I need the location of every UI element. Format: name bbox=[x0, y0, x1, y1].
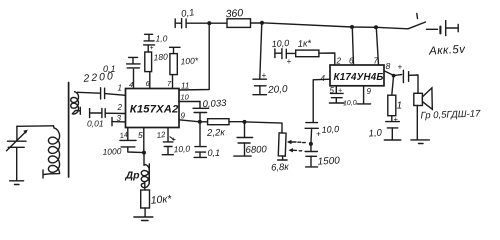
pin 3 stub bbox=[112, 114, 126, 126]
svg-text:4: 4 bbox=[129, 80, 133, 89]
inductor L2 (coupling coil) bbox=[71, 92, 81, 115]
svg-text:1: 1 bbox=[397, 101, 403, 112]
svg-text:0,1: 0,1 bbox=[181, 7, 196, 20]
pin 14 + capacitor 1000 bbox=[102, 128, 144, 157]
wire (supply rail) bbox=[262, 23, 408, 29]
svg-text:0,1: 0,1 bbox=[103, 64, 116, 74]
capacitor output (polarized) bbox=[394, 63, 418, 94]
inductor L1 (tank coil) bbox=[43, 126, 60, 178]
ground (pin 9) bbox=[357, 103, 371, 105]
resistor 10k* bbox=[141, 183, 173, 216]
svg-text:100*: 100* bbox=[180, 55, 199, 66]
svg-text:10,0: 10,0 bbox=[321, 124, 339, 135]
svg-text:1500: 1500 bbox=[317, 155, 340, 167]
svg-text:10: 10 bbox=[181, 93, 190, 102]
resistor 1 bbox=[388, 76, 402, 122]
choke Dr bbox=[125, 153, 150, 188]
capacitor 0,1 (node A) bbox=[195, 122, 220, 158]
pin 5 capacitor 10,0 (U2) bbox=[330, 86, 357, 108]
wire (rail to pin 7) bbox=[376, 27, 378, 65]
capacitor 6800 bbox=[237, 122, 268, 156]
node (rail / 20,0) bbox=[260, 21, 264, 25]
svg-text:2,2к: 2,2к bbox=[206, 127, 226, 139]
svg-text:10,0: 10,0 bbox=[173, 144, 190, 155]
wire (tank top) bbox=[17, 125, 54, 128]
potentiometer 6,8k bbox=[271, 133, 305, 174]
resistor 360 bbox=[209, 7, 262, 27]
svg-text:6,8к: 6,8к bbox=[271, 162, 290, 174]
pin 6 lead bbox=[146, 72, 151, 89]
svg-text:8: 8 bbox=[386, 61, 391, 71]
svg-text:2: 2 bbox=[117, 103, 123, 112]
wire (node B to potentiometer) bbox=[247, 122, 283, 133]
pin 9 lead (U2) bbox=[364, 86, 372, 104]
pin 9 wire (U1) bbox=[179, 112, 200, 122]
capacitor 10,0 (input, polarized) bbox=[271, 38, 295, 66]
svg-text:Др: Др bbox=[125, 170, 141, 182]
ground (20,0) bbox=[253, 94, 266, 96]
amplifier U2 K174UN4B bbox=[330, 65, 384, 86]
svg-text:+: + bbox=[262, 71, 267, 80]
svg-text:Акк.5v: Акк.5v bbox=[428, 44, 467, 58]
svg-text:К174УН4Б: К174УН4Б bbox=[334, 72, 384, 83]
ground (pin 12 cap) bbox=[162, 154, 173, 156]
svg-text:7: 7 bbox=[374, 57, 379, 66]
svg-text:1,0: 1,0 bbox=[368, 127, 383, 139]
svg-text:+: + bbox=[150, 45, 154, 52]
resistor 2,2k bbox=[202, 119, 245, 139]
svg-text:360: 360 bbox=[225, 7, 243, 20]
node B bbox=[243, 120, 247, 124]
svg-text:6: 6 bbox=[349, 57, 354, 66]
svg-text:9: 9 bbox=[367, 87, 372, 96]
capacitor 0,1 (pin 4) bbox=[103, 57, 140, 74]
svg-text:Гр 0,5ГДШ-17: Гр 0,5ГДШ-17 bbox=[420, 108, 481, 121]
pin 5 lead (U1) bbox=[138, 128, 144, 153]
capacitor 1500 bbox=[305, 144, 340, 168]
svg-text:1000: 1000 bbox=[102, 146, 122, 157]
resistor 100* bbox=[170, 47, 199, 74]
capacitor 2200 bbox=[82, 70, 126, 99]
node (pin 7 rail) bbox=[374, 25, 378, 29]
svg-text:6800: 6800 bbox=[245, 144, 267, 156]
svg-text:14: 14 bbox=[119, 130, 129, 140]
node (pin 5) bbox=[142, 151, 146, 155]
svg-text:180: 180 bbox=[153, 51, 168, 62]
svg-text:3: 3 bbox=[117, 114, 122, 123]
svg-text:5: 5 bbox=[138, 130, 143, 140]
node (pin 8) bbox=[392, 74, 396, 78]
svg-text:12: 12 bbox=[156, 130, 167, 140]
ferrite rod bbox=[68, 83, 70, 178]
variable capacitor tank C bbox=[7, 126, 28, 180]
svg-text:7: 7 bbox=[167, 79, 172, 88]
speaker Gr 0,5GDSh-17 bbox=[414, 88, 481, 139]
svg-text:+: + bbox=[398, 63, 403, 72]
resistor 180 bbox=[145, 45, 169, 72]
svg-text:1к*: 1к* bbox=[297, 38, 312, 50]
resistor 1k* bbox=[296, 38, 335, 65]
svg-text:10к*: 10к* bbox=[150, 193, 173, 207]
svg-text:10,0: 10,0 bbox=[271, 38, 289, 49]
ground (6800) bbox=[234, 155, 251, 157]
capacitor 10,0 (node C, polarized) bbox=[305, 123, 339, 144]
pin 10 wire + capacitor 0,033 bbox=[179, 93, 227, 122]
svg-text:9: 9 bbox=[181, 112, 186, 121]
svg-text:1: 1 bbox=[118, 84, 122, 93]
svg-text:+: + bbox=[316, 130, 321, 139]
svg-text:0,01: 0,01 bbox=[87, 119, 104, 129]
svg-text:10,0: 10,0 bbox=[343, 100, 357, 108]
capacitor 0,1 (top) bbox=[175, 7, 209, 28]
ground (1500) bbox=[306, 166, 318, 168]
capacitor 1,0 (output, polarized) bbox=[368, 115, 399, 140]
ground (variable capacitor) bbox=[10, 181, 24, 185]
svg-text:+: + bbox=[287, 57, 292, 66]
svg-text:1,0: 1,0 bbox=[156, 34, 168, 44]
svg-text:0,1: 0,1 bbox=[208, 148, 221, 158]
capacitor 20,0 bbox=[253, 23, 288, 96]
svg-text:20,0: 20,0 bbox=[267, 84, 288, 96]
pin 11 wire bbox=[179, 23, 209, 90]
pin 8 wire (U2) bbox=[384, 61, 394, 75]
pin 7 lead bbox=[167, 75, 173, 89]
svg-text:+: + bbox=[394, 115, 399, 124]
pin 4 lead bbox=[129, 69, 134, 89]
battery Akk 5v bbox=[428, 21, 467, 58]
node (top left) bbox=[207, 21, 211, 25]
wire (coil to pin 1) bbox=[78, 91, 100, 94]
node C bbox=[309, 142, 313, 146]
node (pin 6 rail) bbox=[350, 25, 354, 29]
ground (speaker) bbox=[411, 140, 430, 144]
svg-text:К157ХА2: К157ХА2 bbox=[130, 104, 179, 116]
ground (capacitor 1,0) bbox=[384, 139, 401, 141]
svg-text:4: 4 bbox=[321, 74, 326, 83]
node A bbox=[198, 120, 202, 124]
pin 4 wire (U2) bbox=[313, 74, 330, 122]
ground (0,1 node A) bbox=[194, 156, 206, 158]
op-amp U1 K157XA2 bbox=[126, 89, 180, 128]
svg-text:11: 11 bbox=[181, 81, 189, 90]
ground (10k*) bbox=[134, 217, 153, 221]
capacitor 0,01 bbox=[87, 108, 126, 128]
wire (rail to pin 6) bbox=[352, 27, 353, 65]
pin 12 + capacitor 10,0 bbox=[156, 128, 191, 155]
switch bbox=[408, 14, 438, 30]
capacitor 1,0 (polarized) bbox=[144, 34, 168, 53]
svg-text:0,033: 0,033 bbox=[202, 98, 227, 110]
ground (pin 5 cap) bbox=[329, 102, 344, 104]
